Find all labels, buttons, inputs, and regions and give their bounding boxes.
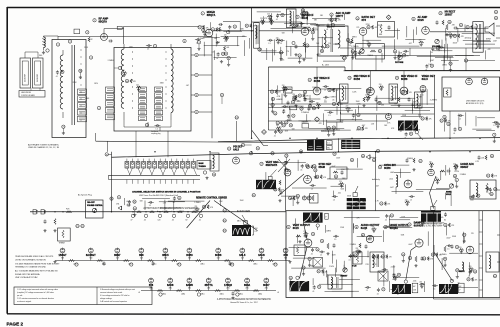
svg-text:HEIGHT: HEIGHT (341, 275, 349, 277)
svg-text:120: 120 (158, 220, 161, 222)
svg-text:47K: 47K (253, 26, 257, 28)
speaker terminal box (378, 271, 388, 281)
svg-text:1.5: 1.5 (392, 292, 394, 294)
svg-text:225V: 225V (84, 47, 89, 49)
sweep section part cluster 19 (384, 268, 386, 270)
svg-text:5T8: 5T8 (149, 284, 154, 287)
sound takeoff part cluster 5 (308, 28, 311, 31)
svg-text:330K: 330K (452, 236, 457, 238)
sound takeoff part cluster 13 (298, 54, 301, 57)
svg-text:57: 57 (221, 95, 223, 97)
border frame top rule (7, 7, 500, 9)
svg-text:47K: 47K (452, 25, 456, 27)
AGC lower TP a (443, 115, 446, 118)
svg-text:47K: 47K (391, 128, 395, 130)
svg-text:2.2MEG: 2.2MEG (350, 244, 357, 246)
vert output tube lead (300, 247, 308, 279)
sweep section part cluster 4 (367, 286, 369, 288)
test point diamond C (315, 117, 320, 122)
RF section part cluster 7 (217, 52, 220, 56)
sync band part cluster 2 (301, 164, 304, 168)
svg-text:2.2MEG: 2.2MEG (330, 96, 337, 98)
svg-text:1.5: 1.5 (147, 48, 149, 50)
sweep section part cluster 21 (377, 288, 380, 292)
video IF strip part cluster 31 (405, 132, 408, 136)
svg-text:1MEG: 1MEG (367, 55, 373, 57)
svg-text:68K: 68K (379, 34, 383, 36)
2nd IF cathode parts (363, 97, 365, 102)
svg-text:6S8: 6S8 (139, 254, 144, 257)
trap band TP left (241, 143, 244, 146)
svg-text:P2: P2 (81, 226, 83, 228)
svg-text:225V: 225V (454, 171, 459, 173)
svg-text:55: 55 (354, 53, 356, 55)
svg-text:5: 5 (202, 13, 203, 15)
svg-text:72: 72 (456, 247, 458, 249)
svg-text:61: 61 (313, 108, 315, 110)
1st IF amplifier tube V7 (313, 87, 321, 95)
channel selector contact leads (127, 168, 130, 175)
audio output tube V19 (366, 235, 373, 242)
audio section part cluster 15 (350, 41, 352, 43)
heater row2 pilot cap (232, 292, 235, 296)
tuner trimmer stack B (106, 87, 115, 93)
svg-text:61: 61 (354, 255, 356, 257)
svg-text:86: 86 (133, 202, 135, 204)
2nd IF amplifier tube V8 (367, 88, 375, 96)
svg-text:2.2MEG: 2.2MEG (351, 46, 359, 48)
svg-text:1MEG: 1MEG (352, 37, 357, 39)
vert output tube V18 (304, 239, 312, 247)
video response photo strip (398, 121, 418, 131)
svg-text:220: 220 (202, 30, 205, 32)
svg-text:35: 35 (432, 255, 434, 257)
svg-text:11: 11 (413, 19, 415, 21)
sync band part cluster 8 (435, 179, 440, 181)
svg-text:270: 270 (286, 51, 289, 53)
remote driver wire right (214, 201, 258, 231)
svg-text:+: + (138, 290, 140, 294)
svg-text:220: 220 (339, 181, 342, 183)
sync band part cluster 4 (455, 178, 458, 181)
AGC box component (444, 88, 451, 97)
svg-text:58: 58 (302, 268, 304, 270)
svg-text:ALL VOLTAGES MEASURED WITH VTV: ALL VOLTAGES MEASURED WITH VTVM AND NO (15, 270, 58, 273)
keyed AGC amp tube V11 (466, 78, 473, 85)
svg-text:MC: MC (327, 148, 330, 150)
svg-text:(9E): (9E) (169, 287, 172, 289)
svg-text:1.5: 1.5 (459, 118, 461, 120)
wire UHF box A lead (24, 52, 26, 58)
svg-text:47K: 47K (365, 128, 369, 130)
svg-text:47K: 47K (210, 207, 214, 209)
svg-text:34: 34 (290, 125, 292, 127)
wire switch lead a (135, 131, 137, 157)
wire IF drop c (403, 71, 405, 87)
surge resistor (54, 219, 56, 225)
svg-text:(3AC): (3AC) (239, 292, 243, 295)
top mixer row part cluster 4 (330, 18, 333, 21)
svg-text:220: 220 (469, 266, 472, 268)
sync band part cluster 1 (306, 165, 309, 168)
svg-text:.01: .01 (312, 291, 314, 293)
horiz phase det box (330, 167, 347, 179)
video detector tube V10 (420, 86, 426, 92)
svg-text:33: 33 (397, 286, 399, 288)
sync band TP row (350, 158, 353, 161)
sweep section part cluster 14 (335, 235, 337, 237)
sweep section part cluster 30 (317, 270, 320, 273)
svg-text:43: 43 (333, 128, 335, 130)
heater string tube 6BY7A row2 (206, 278, 211, 283)
video IF strip part cluster 19 (409, 123, 411, 125)
border frame bottom rule (7, 314, 500, 315)
svg-text:47K: 47K (429, 119, 433, 121)
svg-text:17: 17 (260, 164, 262, 166)
svg-text:1.5K: 1.5K (357, 104, 362, 106)
tuner terminal TP1 (56, 43, 59, 46)
svg-text:31: 31 (477, 196, 479, 198)
audio section part cluster 14 (393, 50, 396, 53)
wire tuner top rail (58, 36, 212, 38)
svg-text:13: 13 (309, 80, 311, 82)
svg-text:.01: .01 (321, 50, 323, 52)
svg-text:48: 48 (402, 254, 404, 256)
svg-text:52: 52 (495, 18, 497, 20)
svg-text:LINE VOLTAGE AT 117VAC: LINE VOLTAGE AT 117VAC (15, 276, 38, 279)
sweep section part cluster 25 (444, 223, 447, 226)
svg-text:R9: R9 (379, 51, 381, 53)
svg-text:.001: .001 (324, 102, 327, 104)
audio output transformer T3 (473, 22, 483, 53)
svg-text:83: 83 (456, 270, 458, 272)
vert osc discharge parts (279, 180, 281, 185)
svg-text:1.5: 1.5 (196, 42, 198, 44)
svg-text:56K: 56K (384, 125, 388, 127)
sweep section part cluster 3 (396, 285, 399, 288)
AC interlock plug (33, 210, 36, 214)
svg-text:6CD7: 6CD7 (263, 284, 270, 287)
test point diamond D1 (386, 15, 391, 20)
svg-text:6AL5: 6AL5 (422, 78, 429, 81)
svg-text:50: 50 (454, 36, 456, 38)
sweep section part cluster 1 (313, 285, 316, 289)
bar sweep response photo A (307, 140, 324, 151)
audio section part cluster 10 (405, 50, 407, 52)
top right stub a (496, 25, 500, 27)
svg-text:270: 270 (471, 233, 474, 235)
channel selector switch contacts (125, 162, 129, 169)
svg-text:68K: 68K (327, 178, 331, 180)
svg-text:3. Measured voltages may devi: 3. Measured voltages may deviate within … (100, 288, 136, 291)
svg-text:220: 220 (269, 18, 272, 20)
vert osc tube V15 (304, 176, 312, 184)
svg-text:17BQ6: 17BQ6 (224, 284, 233, 287)
svg-text:47K: 47K (336, 90, 340, 92)
horiz drive photo J (421, 211, 441, 213)
heater string tube 6SN7 row1 (115, 248, 120, 253)
svg-text:73: 73 (62, 127, 64, 129)
svg-text:26: 26 (306, 13, 308, 15)
wire mixer output (213, 30, 254, 32)
photo I TP (450, 279, 453, 282)
svg-text:82: 82 (186, 220, 188, 222)
heater string tube 6AW8 row2 (187, 278, 192, 283)
svg-text:20: 20 (316, 177, 318, 179)
horiz output photo H (392, 284, 411, 294)
sync band part cluster 24 (314, 169, 317, 172)
svg-text:11: 11 (282, 15, 284, 17)
line filter capacitor (44, 220, 47, 224)
svg-text:47: 47 (131, 220, 133, 222)
svg-text:56K: 56K (320, 15, 324, 17)
svg-text:1.5: 1.5 (224, 41, 226, 43)
svg-text:AC System Plug: AC System Plug (78, 193, 92, 196)
svg-text:45: 45 (467, 27, 469, 29)
svg-text:1.5: 1.5 (324, 100, 326, 102)
sync band part cluster a (406, 159, 409, 163)
svg-text:47K: 47K (133, 81, 137, 83)
svg-text:47K: 47K (278, 92, 282, 94)
wire audio drop e (465, 48, 467, 71)
svg-text:70: 70 (299, 96, 301, 98)
svg-text:1.5: 1.5 (310, 104, 312, 106)
mixer cathode parts (216, 41, 219, 44)
video IF strip part cluster 25 (270, 90, 273, 93)
svg-text:220: 220 (429, 161, 432, 163)
wire vert osc drop (285, 168, 287, 211)
trap box left (210, 153, 219, 171)
photo F bracket note (252, 226, 254, 235)
svg-text:.047: .047 (214, 38, 217, 40)
damper area part cluster 6 (443, 257, 446, 260)
svg-text:(3AC): (3AC) (200, 292, 204, 295)
interstage transformer T5 (389, 84, 398, 103)
sync band part cluster 26 (316, 175, 319, 178)
trap band TP1 (299, 150, 302, 153)
svg-text:1.5: 1.5 (383, 272, 385, 274)
sync noise diode (366, 155, 370, 160)
svg-text:(9E): (9E) (226, 287, 229, 289)
heater row1 pilot caps (103, 262, 106, 266)
svg-text:60: 60 (274, 189, 276, 191)
svg-text:4.7K: 4.7K (413, 101, 417, 103)
svg-text:6CB6: 6CB6 (314, 80, 321, 83)
loudspeaker SP1 (485, 23, 494, 36)
svg-text:VOLTAGE READINGS TAKEN FROM TU: VOLTAGE READINGS TAKEN FROM TUBE SOCKET (15, 262, 60, 265)
svg-text:54: 54 (257, 148, 259, 150)
svg-text:.05: .05 (144, 220, 146, 222)
svg-text:60: 60 (253, 195, 255, 197)
svg-text:13: 13 (297, 196, 299, 198)
audio section part cluster 13 (448, 33, 453, 35)
svg-text:220: 220 (367, 41, 370, 43)
sweep section part cluster 11 (349, 254, 352, 258)
sweep enclosure divider 1 (351, 211, 353, 298)
power transformer lugs (76, 224, 79, 227)
wire ratio det drop (362, 35, 364, 48)
svg-text:220: 220 (356, 248, 359, 250)
svg-text:6BQ7A: 6BQ7A (99, 20, 108, 24)
svg-text:63: 63 (134, 208, 136, 210)
2ND VIDEO IF label (348, 76, 351, 79)
sync band part cluster 11 (487, 174, 490, 177)
remote socket 3 (223, 229, 226, 232)
svg-text:.01: .01 (348, 260, 350, 262)
svg-text:47K: 47K (297, 101, 301, 103)
svg-text:4: 4 (98, 108, 99, 110)
svg-text:V: V (459, 290, 461, 292)
svg-text:1.5: 1.5 (268, 43, 270, 45)
AGC band part cluster 1 (460, 115, 462, 117)
heater string tube 6T8 row1 (283, 248, 288, 253)
photo D tag (353, 193, 357, 197)
svg-text:47K: 47K (418, 114, 422, 116)
svg-text:definitely: definitely (372, 178, 380, 181)
svg-text:56: 56 (405, 127, 407, 129)
RF section part cluster 9 (227, 56, 230, 59)
photo I tag (459, 283, 465, 293)
video response TP (415, 131, 418, 134)
svg-text:47K: 47K (451, 225, 455, 227)
svg-text:1: 1 (57, 44, 58, 46)
RF band wire upper (124, 25, 199, 27)
svg-text:TUNING: TUNING (199, 166, 207, 168)
svg-text:5: 5 (154, 46, 155, 48)
horiz hold pot (449, 184, 453, 188)
svg-text:1MEG: 1MEG (407, 158, 413, 160)
HORIZ AFC label (455, 165, 458, 168)
svg-text:7: 7 (119, 68, 120, 70)
svg-text:47: 47 (242, 145, 244, 147)
svg-text:2.2MEG: 2.2MEG (194, 202, 201, 204)
sound takeoff part cluster 1 (327, 24, 330, 28)
svg-text:4.7K: 4.7K (475, 161, 479, 163)
damper area part cluster 4 (469, 270, 472, 274)
svg-text:68K: 68K (217, 42, 221, 44)
AGC band part cluster 2 (440, 119, 443, 122)
power band part cluster 4 (150, 201, 152, 203)
video IF strip part cluster 6 (400, 126, 403, 130)
main tuning label box (197, 161, 211, 170)
RF section part cluster 2 (228, 25, 231, 29)
svg-text:.05: .05 (332, 100, 334, 102)
svg-text:6CB6: 6CB6 (354, 78, 361, 81)
wire mesh IF area 2 (327, 87, 362, 89)
svg-text:+: + (277, 290, 279, 294)
svg-text:26: 26 (306, 166, 308, 168)
svg-text:common tolerance limits varied: common tolerance limits varied. (100, 291, 123, 294)
wire mesh agc lower area (476, 129, 495, 131)
svg-text:.01: .01 (404, 138, 406, 140)
svg-text:20: 20 (212, 29, 214, 31)
svg-text:B+ 140V: B+ 140V (322, 65, 330, 67)
svg-text:14: 14 (348, 78, 350, 80)
audio section part cluster 1 (466, 26, 469, 29)
svg-text:P1: P1 (76, 226, 78, 228)
wire mesh audio area 2 (457, 27, 489, 29)
svg-text:9: 9 (87, 32, 88, 34)
damper photo I (439, 284, 458, 294)
vert output transformer (328, 275, 342, 289)
svg-text:PIX DET: PIX DET (233, 147, 243, 149)
svg-text:.01: .01 (199, 220, 201, 222)
svg-text:1.5: 1.5 (408, 127, 410, 129)
svg-text:2. DC resistance measured on: 2. DC resistance measured on a schematic… (17, 297, 54, 300)
svg-text:.0047: .0047 (390, 172, 394, 174)
tuner output lug 4 (195, 110, 198, 113)
AGC band part cluster 4 (496, 123, 500, 125)
sweep section part cluster 5 (381, 255, 384, 258)
svg-text:56K: 56K (417, 129, 421, 131)
sync band top right parts (490, 154, 493, 157)
svg-text:6AL5: 6AL5 (233, 148, 239, 151)
sound takeoff part cluster 11 (321, 45, 324, 49)
mixer grid parts (219, 23, 223, 26)
svg-text:8: 8 (456, 180, 457, 182)
svg-text:.01: .01 (357, 204, 359, 206)
svg-text:6CB6: 6CB6 (401, 78, 408, 81)
wire mesh sound area 2 (310, 24, 345, 26)
RF top switch wafer (74, 29, 80, 34)
svg-text:4.7K: 4.7K (353, 56, 357, 58)
svg-text:18: 18 (312, 32, 314, 34)
svg-text:4.5: 4.5 (327, 143, 330, 145)
svg-text:76: 76 (292, 102, 294, 104)
svg-text:53: 53 (272, 105, 274, 107)
svg-text:1B3GT: 1B3GT (445, 13, 453, 16)
svg-text:31: 31 (326, 46, 328, 48)
sync band part cluster 22 (358, 199, 361, 203)
svg-text:6S8GT: 6S8GT (460, 166, 468, 169)
svg-text:LISTED ON SCHEMATIC NOTATION: LISTED ON SCHEMATIC NOTATION (15, 258, 46, 261)
photo G TP (296, 276, 299, 279)
svg-text:CONTROL BOARD: CONTROL BOARD (21, 94, 36, 97)
remote socket 2 (223, 219, 226, 222)
svg-text:220: 220 (419, 40, 422, 42)
svg-text:.01: .01 (274, 136, 276, 138)
svg-text:A PHOTOFACT STANDARD NOTATION: A PHOTOFACT STANDARD NOTATION SCHEMATIC (217, 298, 272, 301)
svg-text:.001: .001 (389, 179, 394, 181)
svg-text:220: 220 (346, 106, 349, 108)
svg-text:.05: .05 (457, 282, 459, 284)
svg-text:220: 220 (260, 18, 263, 20)
svg-text:15: 15 (396, 78, 398, 80)
svg-text:66: 66 (357, 115, 359, 117)
video IF strip part cluster 32 (346, 107, 351, 109)
mixer tube V2 (205, 29, 213, 37)
trap band right TP (376, 149, 379, 152)
svg-text:ITEMS SHOWN ARE USED IN ALL CI: ITEMS SHOWN ARE USED IN ALL CIRCUITS (15, 255, 54, 258)
svg-text:220: 220 (303, 231, 306, 233)
svg-text:46: 46 (431, 66, 433, 68)
svg-text:6CZ5: 6CZ5 (293, 227, 300, 230)
svg-text:47K: 47K (387, 204, 391, 206)
video IF strip part cluster 21 (287, 114, 290, 118)
svg-text:58: 58 (236, 117, 238, 119)
top mixer row part cluster 1 (302, 11, 307, 13)
tuner interior part cluster 8 (156, 125, 158, 127)
svg-text:6CB6: 6CB6 (384, 167, 391, 170)
heater string tube 6CB6 row1 (187, 248, 192, 253)
bar pattern photo B (341, 140, 360, 149)
svg-text:.01: .01 (307, 112, 309, 114)
svg-text:PAGE 2: PAGE 2 (7, 322, 24, 327)
wire mesh sound area (271, 28, 307, 30)
audio amplifier tube V6 (422, 27, 430, 35)
wire AC power bus (30, 211, 286, 213)
svg-text:50: 50 (377, 151, 379, 153)
